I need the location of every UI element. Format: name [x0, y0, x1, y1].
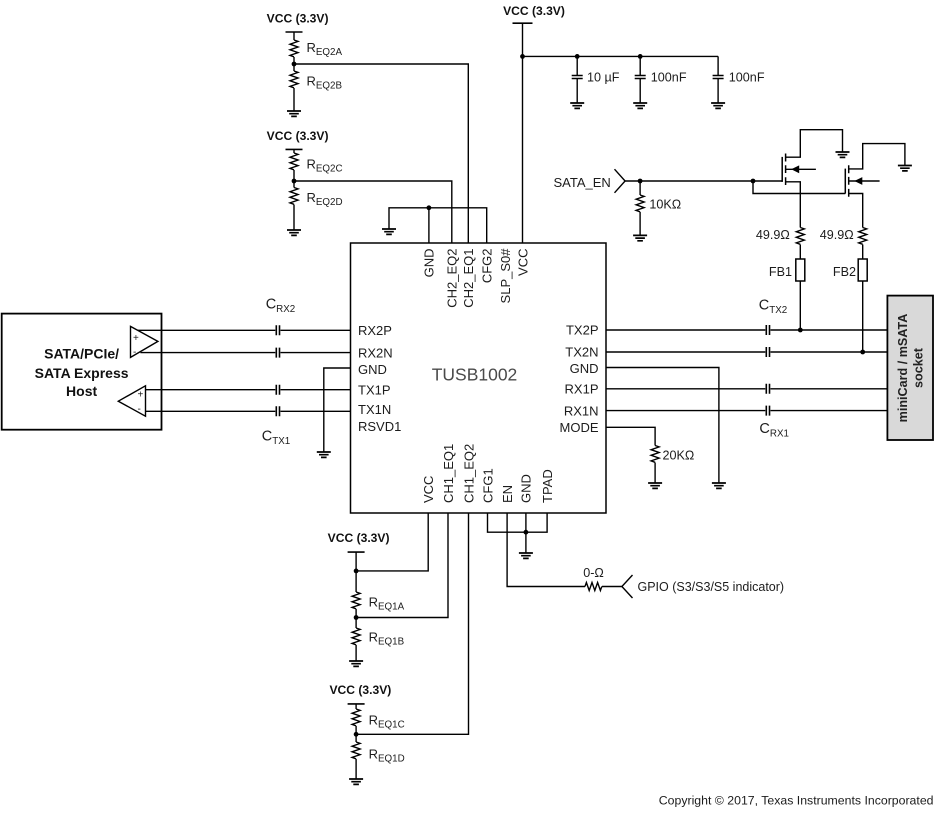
wire TX1N cap to host	[146, 410, 276, 412]
wire RX1P chip to cap	[606, 388, 765, 390]
svg-text:CH1_EQ2: CH1_EQ2	[461, 444, 476, 503]
wire R_EQ1A to R_EQ1B	[355, 609, 357, 628]
ground below R_EQ1D	[349, 779, 363, 784]
wire EN to 0 Ohm	[507, 513, 585, 587]
svg-text:20KΩ: 20KΩ	[663, 449, 695, 463]
ground near chip top	[382, 229, 396, 234]
wire node EQ2A/B to CH2_EQ1 pin	[294, 64, 468, 243]
svg-text:RX1N: RX1N	[564, 403, 599, 418]
wire ground rail to GND and CFG2 pins	[389, 208, 487, 243]
wire VCC bottom pin	[356, 513, 428, 571]
node GND pin junction	[427, 205, 432, 210]
svg-text:VCC (3.3V): VCC (3.3V)	[503, 4, 565, 18]
wire gate branch to Q2 gate	[753, 181, 845, 194]
ground below 20K	[648, 483, 662, 488]
wire GND left pin to ground	[324, 368, 351, 452]
svg-text:EN: EN	[500, 485, 515, 503]
wire MODE to 20K resistor	[606, 427, 655, 445]
capacitor CRX1 on RX1N	[766, 406, 769, 416]
wire R_EQ1C to R_EQ1D	[355, 726, 357, 742]
resistor R_EQ2A	[290, 40, 298, 57]
node GPIO output connector	[622, 575, 633, 598]
svg-text:MODE: MODE	[560, 420, 599, 435]
svg-text:CH1_EQ1: CH1_EQ1	[441, 444, 456, 503]
capacitor CTX1 on TX1P	[276, 385, 279, 395]
wire RX2P cap to chip	[281, 329, 351, 331]
ground at Q1 drain	[836, 152, 850, 157]
svg-text:GND: GND	[570, 361, 599, 376]
node FB1/TX2P junction	[798, 328, 803, 333]
wire VCC bar to R_EQ2A	[293, 32, 295, 40]
wire VCC vertical to chip VCC pin	[522, 23, 524, 243]
wire R_EQ2D to ground	[293, 205, 295, 231]
wire GND bottom pin to ground	[525, 513, 527, 553]
svg-text:SLP_S0#: SLP_S0#	[498, 248, 513, 304]
op-amp host receiver buffer A2	[118, 386, 145, 416]
IC U1 TUSB1002 body	[351, 243, 607, 513]
svg-text:RSVD1: RSVD1	[358, 419, 401, 434]
capacitor CRX1 on RX1P	[766, 384, 769, 394]
power VCC bar top-center	[513, 22, 533, 24]
svg-text:VCC (3.3V): VCC (3.3V)	[329, 683, 391, 697]
transistor Q1 NMOS	[782, 130, 842, 228]
wire junction to 10K resistor	[639, 181, 641, 195]
ground left of chip	[317, 452, 331, 457]
capacitor 100nF first	[639, 56, 641, 103]
svg-text:10 µF: 10 µF	[587, 71, 620, 85]
wire TX1P chip to cap	[281, 389, 351, 391]
wire TX1N chip to cap	[281, 410, 351, 412]
wire TX1P cap to host	[146, 389, 276, 391]
svg-text:VCC (3.3V): VCC (3.3V)	[328, 531, 390, 545]
ground below R_EQ2B	[287, 111, 301, 116]
ground right of chip	[712, 483, 726, 488]
svg-text:TX2P: TX2P	[566, 323, 599, 338]
resistor R_EQ1D	[352, 742, 360, 759]
ferrite bead FB2	[858, 259, 867, 281]
svg-text:TX2N: TX2N	[565, 345, 598, 360]
node 10K junction	[638, 179, 643, 184]
capacitor CRX2 on RX2P	[276, 325, 279, 335]
capacitor CRX2 on RX2N	[276, 348, 279, 358]
power VCC bar bottom 1	[348, 551, 365, 553]
wire RX1P cap to socket	[771, 388, 888, 390]
node SATA_EN input connector	[615, 169, 626, 193]
svg-text:CFG1: CFG1	[480, 468, 495, 503]
node VCC rail junction 2	[575, 54, 580, 59]
wire R_EQ1D to ground	[355, 759, 357, 779]
wire CFG1 to TPAD tie	[488, 513, 548, 532]
resistor 0-Ohm	[585, 583, 602, 591]
wire TX2N chip to cap	[606, 351, 765, 353]
capacitor 10uF	[576, 56, 578, 103]
ground at Q2 drain	[898, 166, 912, 171]
wire GND right pin to ground	[606, 368, 719, 484]
wire R_EQ2B to ground	[293, 88, 295, 111]
node GND/CFG1 junction	[524, 530, 529, 535]
transistor Q2 NMOS	[845, 144, 905, 228]
wire 20K to ground	[654, 463, 656, 484]
resistor 20KOhm	[651, 446, 659, 463]
capacitor CTX1 on TX1N	[276, 406, 279, 416]
wire CH1_EQ2 pin to divider	[356, 513, 468, 734]
svg-text:VCC (3.3V): VCC (3.3V)	[267, 129, 329, 143]
ground below first 100nF	[633, 103, 647, 108]
resistor R_EQ1A	[352, 592, 360, 609]
wire TX2N cap to socket	[771, 351, 888, 353]
svg-text:GPIO (S3/S3/S5 indicator): GPIO (S3/S3/S5 indicator)	[638, 580, 785, 594]
wire node EQ2C/D to CH2_EQ2 pin	[294, 181, 452, 243]
svg-text:0-Ω: 0-Ω	[583, 566, 604, 580]
node VCC rail junction 3	[638, 54, 643, 59]
wire GND pin stub	[428, 208, 430, 243]
svg-text:100nF: 100nF	[729, 71, 765, 85]
node FB2/TX2N junction	[860, 350, 865, 355]
ground below R_EQ1B	[349, 661, 363, 666]
svg-text:SATA_EN: SATA_EN	[553, 175, 610, 190]
svg-text:-: -	[138, 404, 141, 415]
wire TX2P chip to cap	[606, 329, 765, 331]
wire 0 Ohm to GPIO connector	[602, 586, 622, 588]
wire TX2P cap to socket	[771, 329, 888, 331]
wire SATA_EN to Q1 gate	[625, 180, 782, 182]
svg-text:GND: GND	[422, 249, 437, 278]
wire VCC decoupling rail	[523, 55, 719, 57]
svg-text:FB2: FB2	[833, 265, 856, 279]
svg-text:49.9Ω: 49.9Ω	[756, 228, 790, 242]
svg-text:VCC: VCC	[515, 249, 530, 276]
ground below second 100nF	[711, 103, 725, 108]
svg-text:TX1P: TX1P	[358, 382, 391, 397]
svg-text:CFG2: CFG2	[480, 249, 495, 284]
power VCC bar top-left 2	[286, 148, 303, 150]
wire VCC bar to R_EQ1C	[355, 704, 357, 709]
capacitor 100nF second	[717, 56, 719, 103]
svg-text:FB1: FB1	[769, 265, 792, 279]
ground below chip	[519, 553, 533, 558]
wire 49.9 right to FB2	[862, 245, 864, 260]
wire 10K to ground	[639, 212, 641, 235]
resistor R_EQ2B	[290, 71, 298, 88]
wire VCC bar to R_EQ2C	[293, 149, 295, 153]
capacitor CTX2 on TX2P	[766, 325, 769, 335]
svg-text:RX2P: RX2P	[358, 323, 392, 338]
svg-text:TX1N: TX1N	[358, 402, 391, 417]
resistor R_EQ2C	[290, 153, 298, 170]
svg-text:RX2N: RX2N	[358, 345, 393, 360]
svg-text:SATA Express: SATA Express	[35, 365, 129, 381]
node EQ2AB junction	[292, 62, 297, 67]
svg-text:TUSB1002: TUSB1002	[432, 364, 518, 384]
wire RX1N cap to socket	[771, 410, 888, 412]
wire 49.9 left to FB1	[799, 245, 801, 260]
svg-text:10KΩ: 10KΩ	[649, 198, 681, 212]
wire R_EQ2A to R_EQ2B	[293, 57, 295, 71]
power VCC bar bottom 2	[348, 703, 365, 705]
ground below R_EQ2D	[287, 230, 301, 235]
wire R_EQ1B to ground	[355, 645, 357, 661]
resistor R_EQ1B	[352, 628, 360, 645]
svg-text:GND: GND	[358, 362, 387, 377]
resistor 49.9 Ohm right	[859, 228, 867, 245]
svg-text:RX1P: RX1P	[565, 382, 599, 397]
svg-text:Copyright © 2017, Texas Instru: Copyright © 2017, Texas Instruments Inco…	[659, 794, 934, 808]
svg-text:miniCard / mSATA: miniCard / mSATA	[896, 314, 910, 423]
resistor 49.9 Ohm left	[796, 228, 804, 245]
ground below 10K	[633, 235, 647, 240]
wire VCC bar to R_EQ1A	[355, 552, 357, 592]
svg-text:49.9Ω: 49.9Ω	[820, 228, 854, 242]
svg-text:-: -	[133, 347, 136, 358]
svg-text:100nF: 100nF	[651, 71, 687, 85]
node EQ1AB junction	[354, 615, 359, 620]
wire RX1N chip to cap	[606, 410, 765, 412]
svg-text:CH2_EQ2: CH2_EQ2	[445, 249, 460, 308]
wire RX2N host to cap	[140, 352, 275, 354]
svg-text:SATA/PCIe/: SATA/PCIe/	[44, 345, 119, 361]
power VCC bar top-left 1	[286, 31, 303, 33]
resistor R_EQ2D	[290, 188, 298, 205]
svg-text:GND: GND	[519, 474, 534, 503]
host box SATA/PCIe/SATA Express Host	[2, 314, 162, 430]
wire RX2N cap to chip	[281, 352, 351, 354]
ferrite bead FB1	[796, 259, 805, 281]
wire RX2P host to cap	[138, 329, 276, 331]
svg-text:VCC (3.3V): VCC (3.3V)	[267, 12, 329, 26]
svg-text:+: +	[138, 390, 144, 401]
node VCC rail junction 1	[520, 54, 525, 59]
node VCC/R_EQ1A junction	[354, 569, 359, 574]
resistor R_EQ1C	[352, 709, 360, 726]
svg-text:TPAD: TPAD	[540, 469, 555, 503]
svg-text:Host: Host	[66, 383, 97, 399]
svg-text:socket: socket	[911, 347, 925, 388]
socket box miniCard / mSATA	[887, 296, 933, 440]
node EQ1CD junction	[354, 732, 359, 737]
svg-text:+: +	[133, 333, 139, 344]
wire FB2 to TX2N net	[862, 281, 864, 352]
resistor 10KOhm	[636, 195, 644, 212]
node gate branch junction	[751, 179, 756, 184]
svg-text:VCC: VCC	[421, 476, 436, 503]
svg-text:CH2_EQ1: CH2_EQ1	[461, 249, 476, 308]
wire FB1 to TX2P net	[799, 281, 801, 330]
op-amp host driver buffer A1	[131, 326, 158, 357]
wire R_EQ2C to R_EQ2D	[293, 170, 295, 188]
ground below 10uF	[570, 103, 584, 108]
node EQ2CD junction	[292, 179, 297, 184]
capacitor CTX2 on TX2N	[766, 347, 769, 357]
wire CH1_EQ1 pin to divider	[356, 513, 448, 618]
